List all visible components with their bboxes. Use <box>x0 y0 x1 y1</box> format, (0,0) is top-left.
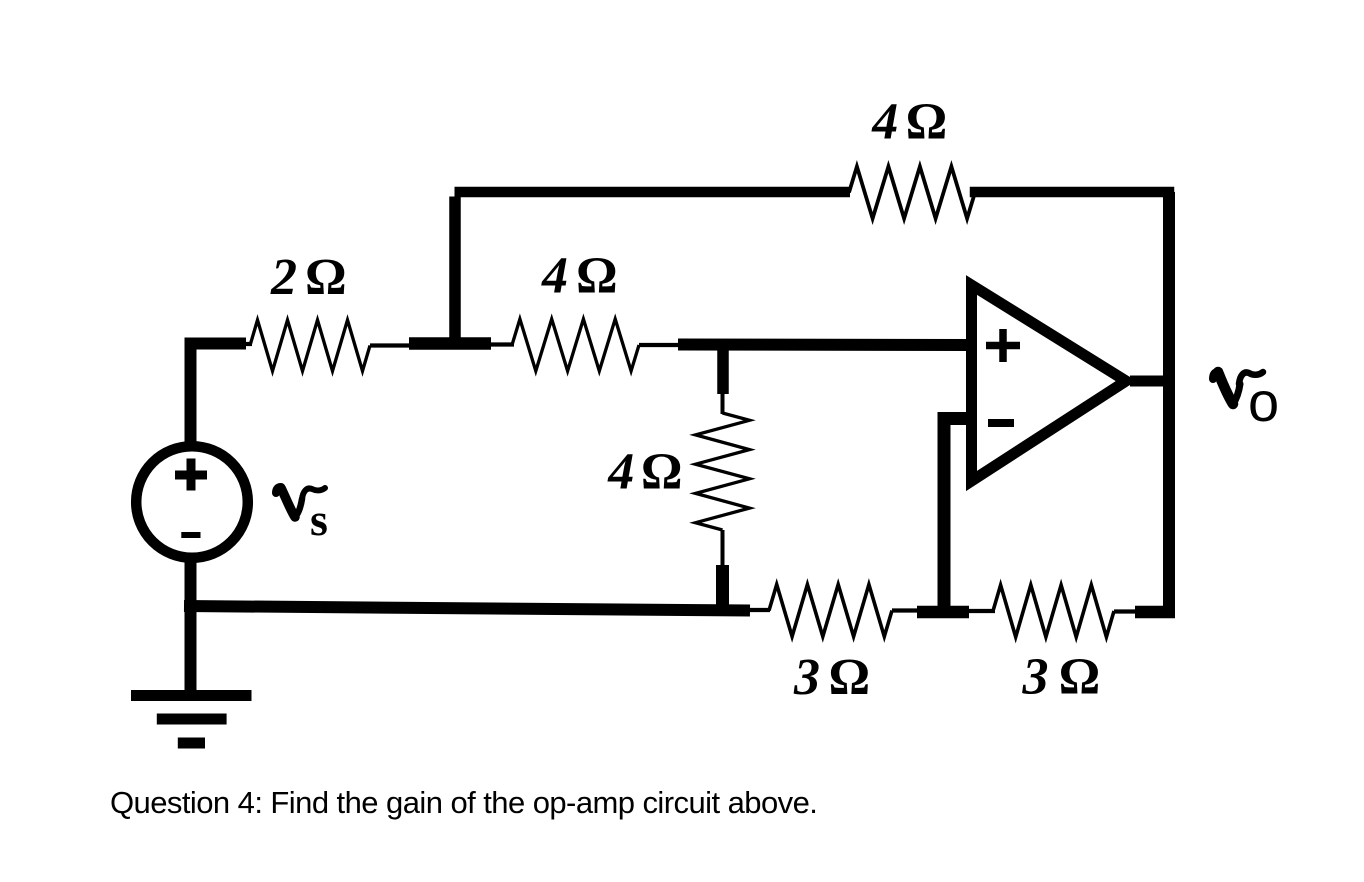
wire: thin lead left of 3ohm right <box>967 609 995 613</box>
svg-text:3: 3 <box>1022 649 1049 706</box>
wire: node B thick run to op-amp noninverting input <box>678 339 968 352</box>
svg-text:4: 4 <box>541 248 568 305</box>
wire: thin lead left of series 4ohm <box>489 342 514 346</box>
node C: junction bar between the 3ohm resistors <box>917 606 969 619</box>
wire: thin lead left of 3ohm left <box>748 608 770 612</box>
wire: top feedback rail left segment <box>455 187 851 198</box>
op-amp U1 triangle <box>972 285 1127 481</box>
svg-text:2: 2 <box>270 249 297 306</box>
label Vo <box>1213 370 1279 433</box>
svg-text:Ω: Ω <box>1059 649 1101 706</box>
wire: shunt branch top stub <box>717 347 729 394</box>
svg-text:Ω: Ω <box>576 248 618 305</box>
op-amp inverting pin label minus <box>988 419 1014 427</box>
resistor R6 3ohm right <box>993 585 1114 637</box>
wire: thin lead above shunt 4ohm <box>721 392 725 414</box>
wire: op-amp output stub to rail <box>1130 376 1175 387</box>
svg-text:Question 4: Find the gain of t: Question 4: Find the gain of the op-amp … <box>110 785 817 820</box>
label 4 ohm series <box>541 248 618 305</box>
wire: left vertical lead from 2ohm corner down to Vs plus terminal <box>191 344 241 445</box>
wire: bottom rail from source to 3ohm <box>184 606 750 611</box>
node A: thick junction bar joining 2ohm, series 4ohm, feedback tap <box>409 337 491 350</box>
wire: inverting input vertical riser and horizontal stub <box>944 419 966 611</box>
resistor R3 4ohm series <box>512 319 639 371</box>
label 4 ohm feedback <box>871 94 947 151</box>
svg-text:o: o <box>1248 370 1279 433</box>
voltage source Vs <box>136 446 248 558</box>
resistor R5 3ohm left <box>769 585 892 637</box>
wire: thin lead below shunt 4ohm <box>721 530 725 568</box>
svg-text:Ω: Ω <box>829 649 871 706</box>
label Vs <box>276 487 328 545</box>
resistor R4 4ohm shunt vertical <box>696 413 750 530</box>
label 4 ohm shunt <box>607 444 682 501</box>
wire: thin lead right of 3ohm right <box>1114 609 1140 613</box>
svg-text:Ω: Ω <box>305 249 347 306</box>
wire: right vertical output rail <box>1163 192 1175 612</box>
label 2 ohm <box>270 249 347 306</box>
wire: thin lead right of 3ohm left <box>892 608 920 612</box>
label 3 ohm left <box>793 649 870 706</box>
ground <box>131 690 252 749</box>
label 3 ohm right <box>1022 649 1101 706</box>
wire: thin lead right of 2ohm <box>370 343 413 347</box>
wire: shunt branch bottom stub <box>716 565 729 610</box>
wire: bottom-right corner bar to output rail <box>1135 606 1175 619</box>
svg-text:3: 3 <box>793 649 820 706</box>
svg-text:4: 4 <box>871 94 898 151</box>
wire: thin lead right of series 4ohm <box>639 343 682 347</box>
resistor R1 2ohm <box>250 320 370 371</box>
svg-text:Ω: Ω <box>641 444 683 501</box>
wire: feedback tap vertical riser <box>449 197 461 340</box>
op-amp noninverting pin label plus <box>986 329 1020 362</box>
question caption <box>110 785 817 820</box>
wire: source bottom lead down to ground <box>185 559 197 695</box>
wire: top feedback rail right segment with corner <box>975 192 1169 250</box>
wire: thin lead left of 2ohm <box>238 342 252 346</box>
svg-text:4: 4 <box>607 444 634 501</box>
resistor R2 4ohm feedback top <box>849 167 975 219</box>
svg-text:s: s <box>310 494 328 545</box>
svg-text:Ω: Ω <box>906 94 948 151</box>
